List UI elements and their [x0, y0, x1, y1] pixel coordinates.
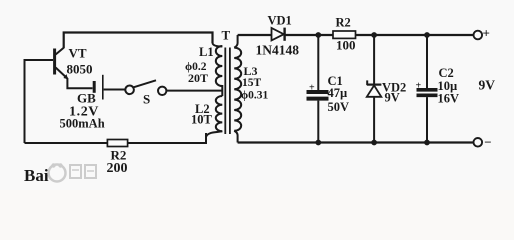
- switch S contact circle left: [125, 86, 134, 95]
- wire secondary top lead: [234, 35, 237, 48]
- transformer primary top connector: [213, 43, 223, 47]
- capacitor C1 bottom plate: [307, 97, 329, 101]
- junction node VD2 bottom: [371, 140, 377, 146]
- svg-text:500mAh: 500mAh: [60, 117, 105, 131]
- svg-text:9V: 9V: [479, 78, 496, 93]
- svg-text:L1: L1: [199, 45, 214, 59]
- wire diode to R2: [285, 34, 333, 36]
- svg-text:S: S: [143, 92, 150, 107]
- wire switch to transformer mid tap: [167, 90, 223, 92]
- diode VD1 cathode bar: [283, 28, 285, 41]
- svg-text:1N4148: 1N4148: [256, 43, 300, 58]
- wire bottom-left rail left part: [25, 142, 108, 144]
- svg-text:50V: 50V: [328, 100, 350, 114]
- capacitor C2 bottom plate: [417, 94, 438, 98]
- transformer L2 bottom connector: [206, 131, 222, 136]
- svg-text:VT: VT: [69, 46, 87, 61]
- wire bottom-right rail: [238, 141, 474, 143]
- transistor VT collector lead: [56, 48, 64, 55]
- svg-text:Bai: Bai: [24, 166, 49, 185]
- wire capacitor C2 branch top: [426, 35, 428, 88]
- wire base lead: [25, 60, 54, 143]
- wire capacitor C2 branch bottom: [426, 97, 428, 142]
- transformer winding L1: [216, 46, 223, 96]
- wire zener VD2 branch top: [373, 35, 375, 85]
- switch S lever: [134, 80, 157, 87]
- transformer winding L2: [216, 96, 223, 131]
- svg-text:9V: 9V: [385, 91, 400, 105]
- svg-text:16V: 16V: [438, 92, 460, 106]
- svg-text:15T: 15T: [242, 77, 262, 89]
- capacitor C2 top plate: [417, 88, 438, 92]
- svg-text:−: −: [484, 135, 491, 150]
- zener VD2 triangle: [367, 85, 382, 96]
- wire zener VD2 branch bottom: [373, 97, 375, 143]
- battery GB long plate: [102, 75, 104, 100]
- svg-text:GB: GB: [77, 91, 96, 106]
- svg-text:200: 200: [107, 161, 128, 176]
- junction node C2 top: [424, 32, 430, 38]
- svg-text:R2: R2: [336, 16, 351, 30]
- svg-text:ϕ0.31: ϕ0.31: [241, 90, 269, 102]
- wire bottom-left rail right part: [128, 133, 206, 143]
- output terminal minus: [474, 138, 483, 147]
- wire top-left rail (collector to transformer primary top): [64, 33, 213, 49]
- transformer core line left: [224, 48, 226, 135]
- junction node C2 bottom: [424, 140, 430, 146]
- svg-text:20T: 20T: [188, 71, 208, 85]
- transistor VT emitter arrow: [63, 74, 68, 79]
- svg-text:10T: 10T: [191, 113, 213, 127]
- junction node R2-VD2 top: [371, 32, 377, 38]
- svg-text:VD1: VD1: [268, 14, 292, 28]
- transformer secondary winding L3: [234, 48, 241, 131]
- battery GB short plate: [93, 81, 96, 93]
- svg-text:C2: C2: [439, 66, 454, 80]
- svg-text:T: T: [222, 28, 231, 43]
- switch S contact circle right: [158, 87, 166, 95]
- wire R2 to plus terminal: [356, 34, 474, 36]
- svg-text:100: 100: [336, 38, 356, 53]
- transformer core line right: [229, 48, 231, 135]
- junction node diode-C1 top: [315, 32, 321, 38]
- wire emitter to battery: [67, 78, 92, 88]
- wire top-right rail to diode: [238, 34, 272, 36]
- output terminal plus: [474, 31, 483, 40]
- svg-text:8050: 8050: [67, 62, 93, 77]
- svg-text:L3: L3: [244, 64, 258, 78]
- resistor R2 200 box: [107, 140, 127, 147]
- zener VD2 cathode bar: [367, 83, 382, 85]
- wire secondary bottom lead: [234, 131, 237, 143]
- svg-text:+: +: [309, 83, 315, 94]
- capacitor C1 top plate: [307, 90, 329, 94]
- svg-text:+: +: [416, 81, 422, 92]
- wire battery to switch: [104, 89, 126, 91]
- resistor R2 100 box: [333, 31, 356, 38]
- transistor VT base bar: [53, 49, 56, 75]
- wire capacitor C1 branch top: [317, 35, 319, 90]
- wire capacitor C1 branch bottom: [317, 101, 319, 143]
- diode VD1 triangle: [272, 28, 284, 40]
- zener VD2 cathode left hook: [366, 80, 368, 85]
- transistor VT emitter lead: [56, 68, 68, 79]
- svg-text:47µ: 47µ: [328, 86, 348, 100]
- svg-text:+: +: [483, 26, 490, 41]
- junction node C1 bottom: [315, 140, 321, 146]
